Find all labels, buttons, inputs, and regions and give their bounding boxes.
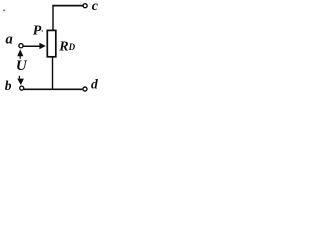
terminal b (20, 86, 24, 90)
voltage arrow upper head (points up toward a) (17, 49, 23, 56)
svg-text:c: c (92, 0, 99, 14)
svg-text:U: U (16, 58, 28, 74)
wire a to wiper (23, 45, 40, 47)
terminal d (83, 87, 87, 91)
svg-text:d: d (91, 76, 98, 91)
wiper arrow P (39, 43, 45, 49)
dot after P (42, 30, 43, 31)
wire rect bottom to bottom rail (52, 57, 54, 90)
bottom wire b to d (24, 88, 83, 90)
svg-text:P: P (33, 24, 42, 39)
circuit schematic: potentiometer R_D with wiper P, terminals a,b,c,d, source voltage U (0, 0, 101, 95)
wire rect top to top rail (vertical) (52, 6, 54, 31)
speck (scan artifact) (3, 9, 5, 11)
resistor R_D (potentiometer body) (47, 30, 56, 56)
terminal c (83, 4, 87, 8)
top rail to c (horizontal) (52, 5, 83, 7)
voltage arrow lower stem (18, 76, 20, 79)
terminal a (19, 44, 23, 48)
svg-text:a: a (6, 32, 13, 48)
svg-text:RD: RD (58, 39, 75, 54)
voltage arrow lower head (points down toward b) (17, 79, 24, 85)
svg-text:b: b (5, 78, 12, 93)
voltage arrow upper stem (19, 56, 21, 59)
